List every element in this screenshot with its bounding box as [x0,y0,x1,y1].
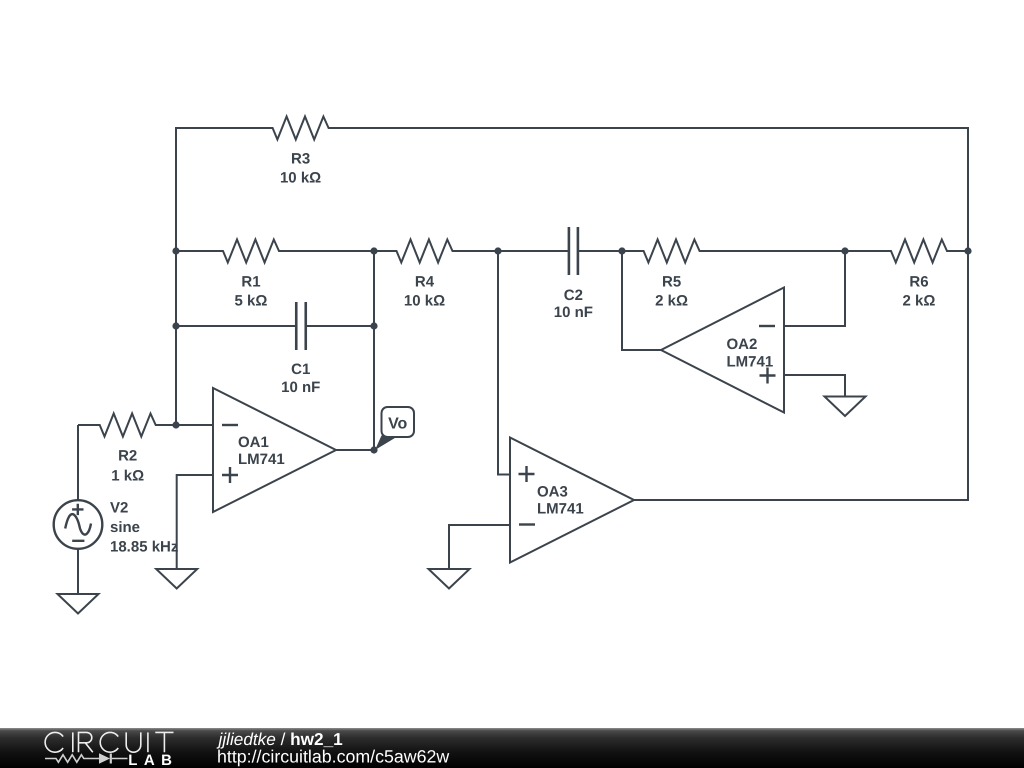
svg-text:R2: R2 [118,447,137,464]
svg-text:2 kΩ: 2 kΩ [655,292,688,309]
svg-text:OA3: OA3 [537,483,568,500]
svg-text:LM741: LM741 [537,500,584,517]
svg-text:OA1: OA1 [238,434,269,451]
svg-text:10 kΩ: 10 kΩ [280,169,321,186]
svg-text:18.85 kHz: 18.85 kHz [110,539,178,556]
svg-text:LAB: LAB [128,752,178,768]
svg-text:10 nF: 10 nF [554,304,593,321]
svg-text:LM741: LM741 [238,451,285,468]
svg-text:1 kΩ: 1 kΩ [111,467,144,484]
svg-text:10 kΩ: 10 kΩ [404,292,445,309]
svg-text:R3: R3 [291,150,310,167]
svg-text:http://circuitlab.com/c5aw62w: http://circuitlab.com/c5aw62w [217,747,449,767]
svg-text:C1: C1 [291,361,310,378]
svg-text:10 nF: 10 nF [281,379,320,396]
svg-text:R4: R4 [415,273,435,290]
svg-text:V2: V2 [110,500,128,517]
svg-text:LM741: LM741 [727,354,774,371]
svg-text:OA2: OA2 [727,336,758,353]
svg-text:C2: C2 [564,287,583,304]
svg-text:5 kΩ: 5 kΩ [235,292,268,309]
svg-text:R1: R1 [241,273,260,290]
svg-text:sine: sine [110,519,140,536]
svg-text:Vo: Vo [388,415,407,432]
svg-text:2 kΩ: 2 kΩ [903,292,936,309]
svg-text:R6: R6 [909,273,928,290]
svg-text:R5: R5 [662,273,681,290]
